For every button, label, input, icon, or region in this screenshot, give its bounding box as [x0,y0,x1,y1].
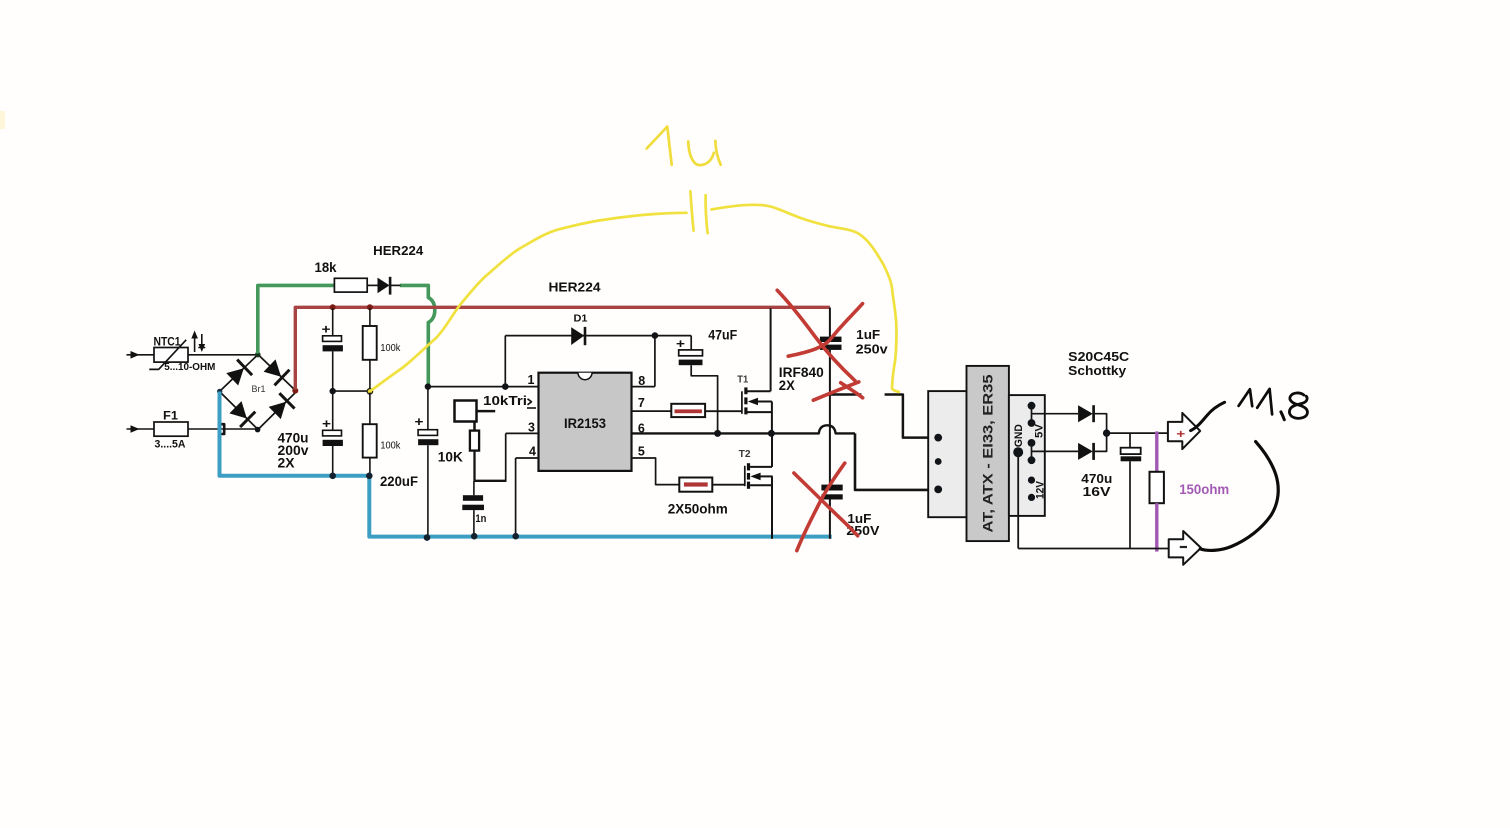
output minus terminal arrow [1169,531,1201,565]
transformer primary pin dot top [934,434,942,442]
svg-text:AT, ATX - EI33, ER35: AT, ATX - EI33, ER35 [980,374,996,532]
wire trimmer to 10K resistor [473,422,476,431]
svg-text:D1: D1 [574,314,588,325]
wire D1 junction to 47uF [655,335,691,337]
wire 470u 16V to ground rail [1129,461,1131,548]
wire 100k #1 to mid rail [369,360,371,391]
schottky diode top triangle [1078,405,1093,422]
wire diode to green [390,284,400,286]
svg-text:1: 1 [528,373,535,387]
svg-text:12V: 12V [1034,480,1046,499]
capacitor 470u 16V bottom plate [1121,456,1142,461]
resistor 100k #2 body [363,424,377,457]
svg-text:5: 5 [638,445,645,459]
svg-text:7: 7 [638,396,645,410]
svg-text:16V: 16V [1083,484,1111,499]
capacitor 470u 16V top plate [1121,448,1141,454]
transistor T2 drain wire [750,466,772,468]
transformer core [967,366,1009,541]
wire GND return vertical [1017,452,1019,548]
red X over cut stub stroke A [813,382,859,400]
svg-text:8: 8 [638,374,645,388]
pale yellow smudge left edge [0,111,5,129]
svg-text:1uF: 1uF [856,328,880,342]
junction dot mid rail right (yellow end) [367,388,374,395]
bridge Br1 diamond outline [220,355,297,430]
handwritten 11,8 value [1239,389,1253,406]
svg-text:250v: 250v [856,343,888,357]
junction dot mid node 47uF return [714,430,721,437]
wire 100k #2 to blue rail [369,458,371,476]
down arrow annotation at NTC1 [201,334,203,346]
green wire bridge to 18k [258,285,335,353]
minus sign in terminal [1180,546,1187,548]
wire mid pair to schottky D-bottom [1032,450,1079,452]
svg-text:5V: 5V [1034,423,1046,438]
wire mid rail to cap #2 [332,391,334,430]
wire cap 220uF to blue rail [427,445,429,537]
junction dot D1/pin8/47uF [652,332,659,339]
wire 1uF bottom to blue rail [829,500,831,539]
transistor T2 body arrow [750,473,760,481]
resistor 2X50ohm #2 red stripe [684,482,708,486]
capacitor 470u #1 top plate [323,336,342,342]
yellow wire right branch [712,205,899,392]
resistor 18k body [334,278,367,292]
wire D1 top horizontal [505,335,655,337]
input terminal arrow (line) top [127,354,155,356]
transistor T1 channel dashes [744,387,747,394]
junction dot blue rail 1n [471,533,478,540]
input terminal arrowhead top [131,351,140,359]
junction dot mid node T1/T2 [768,430,775,437]
svg-text:+: + [415,415,424,429]
resistor 10K body [470,431,479,451]
bridge diode bottom-right arm [269,402,286,419]
capacitor 1uF 250v top plate A [820,337,842,342]
thermistor NTC1 body [154,348,188,363]
bridge diode bottom-left arm [229,401,246,418]
red X over 1uF top stroke B [788,304,862,357]
svg-text:4: 4 [529,445,536,459]
capacitor 220uF bottom plate [418,439,438,445]
capacitor 1n top plate [463,495,483,501]
wire red rail to cap 470u #1 [332,308,334,336]
svg-text:10K: 10K [438,449,463,464]
resistor 2X50ohm #1 red stripe [675,409,702,413]
svg-text:100k: 100k [380,342,401,354]
junction dot blue rail pin4 [512,533,519,540]
wire cap #1 to mid rail [332,351,334,391]
node bridge top junction dot [255,352,261,358]
transformer secondary pin dots [1028,402,1036,410]
wire pin4 stub [516,457,539,459]
transistor T1 body arrow [748,398,758,406]
red X over 1uF bottom stroke B [794,473,858,536]
diode D1 triangle [571,327,584,345]
bridge diode top-right arm [264,359,282,376]
green wire diode to pin1 node with hop over red rail [400,285,435,385]
output plus terminal arrow [1168,413,1200,449]
capacitor 1uF 250v top plate B [820,345,842,350]
resistor 2X50ohm #1 body [671,404,705,417]
crossing bracket over blue wire [219,424,224,434]
schottky diode top cathode bar [1092,405,1095,422]
transformer secondary pair link 5V [1031,406,1033,423]
resistor 100k #1 body [363,326,377,360]
capacitor 1uF 250V bottom plate B [821,494,842,499]
capacitor 470u #2 top plate [323,430,342,436]
wire output to 470u 16V cap [1129,433,1131,448]
junction dot output node [1103,429,1110,436]
wire pin5 dogleg to gate resistor 2 [632,458,680,485]
node bridge bottom junction dot [255,427,261,433]
wire trimmer to pin2 [477,410,496,413]
wire pin6 / half-bridge mid node with hop [632,425,856,433]
svg-text:220uF: 220uF [380,474,418,489]
yellow capacitor 1u right plate [706,195,708,233]
trimmer 10kTri body [455,401,477,422]
svg-text:F1: F1 [163,409,178,423]
wire gate resistor #1 to T1 gate [705,410,742,412]
svg-text:100k: 100k [380,439,401,451]
op-amp/driver IC U1 IR2153 body [539,373,632,471]
svg-text:+: + [1176,427,1185,441]
up arrow annotation at NTC1 [194,336,196,352]
junction dot blue rail x428 [424,534,431,541]
capacitor 1uF 250V bottom plate A [821,485,842,491]
capacitor 47uF bottom plate [679,360,703,366]
svg-text:T2: T2 [739,448,751,460]
svg-text:+: + [322,417,331,431]
diode HER224 (top) triangle [378,278,390,294]
stub cut wire left [828,393,861,396]
resistor 150ohm body [1150,472,1164,503]
handwritten stroke at plus terminal [1191,402,1225,430]
wire pin8 vertical [654,336,656,387]
svg-text:2X50ohm: 2X50ohm [668,501,728,516]
wire 5V pair to schottky D-top [1032,413,1079,415]
svg-text:2X: 2X [779,378,795,393]
wire D1 branch vertical left [504,336,506,387]
wire F1 to bridge bottom node [188,428,257,430]
junction dot blue rail x369 [366,473,373,480]
svg-text:Schottky: Schottky [1068,363,1127,378]
wire pin7 to gate resistor [632,410,672,412]
wire mid rail to 100k #2 [369,391,371,424]
wire 18k to diode [367,284,377,286]
wire pin1 rail [428,386,539,388]
transistor T2 channel dashes [747,463,750,470]
purple wire top (output to 150ohm) [1155,431,1158,472]
junction dot pin1/green node [425,383,431,389]
transistor T2 source wire [750,484,772,486]
svg-text:GND: GND [1013,424,1025,447]
wire NTC1 to bridge top node [188,354,258,356]
yellow capacitor 1u left plate [690,191,693,230]
wire node to cap 220uF [427,387,429,430]
wire mid node down to transformer [855,433,928,490]
resistor 2X50ohm #2 body [679,478,712,492]
blue negative rail wire [220,392,832,537]
svg-text:150ohm: 150ohm [1179,482,1229,497]
transistor T1 gate bar [741,391,743,414]
svg-text:Br1: Br1 [252,384,266,395]
thermistor NTC1 diagonal strike [149,340,186,370]
diode D1 cathode bar [584,327,587,345]
transistor T2 gate bar [744,466,746,486]
svg-text:10kTri: 10kTri [483,393,527,408]
yellow wire left branch [370,213,687,391]
purple wire bottom (150ohm to ground) [1155,503,1158,551]
wire schottky bottom to output node [1095,433,1107,451]
wire schottky top to output node [1095,414,1107,433]
capacitor 220uF top plate [418,430,437,436]
transistor T1 drain wire [748,390,771,392]
svg-text:T1: T1 [737,373,748,385]
wire pin3 vertical [505,433,507,482]
svg-text:NTC1: NTC1 [154,335,181,349]
svg-text:HER224: HER224 [549,279,602,294]
wire junction to 1n cap [473,481,475,495]
wire cap #2 to blue rail [332,446,334,476]
IC notch [578,373,592,380]
svg-text:HER224: HER224 [373,244,423,258]
red positive rail wire [295,307,830,389]
handwritten arc wire to minus terminal [1200,442,1278,551]
junction dot red rail x333 [330,304,336,310]
wire red rail to 100k #1 [369,308,371,326]
wire gate resistor #2 to T2 gate [712,484,745,486]
svg-text:47uF: 47uF [708,328,737,343]
svg-text:1n: 1n [475,513,486,525]
transformer left bobbin [928,391,966,517]
svg-text:18k: 18k [315,260,337,275]
red X over 1uF top stroke A [777,290,855,380]
transformer secondary pair link mid [1031,443,1033,460]
pin 2 marker [528,399,532,405]
stub cut wire right to transformer [885,395,929,438]
input terminal arrow (line) bottom [127,428,155,430]
schottky diode bottom triangle [1078,443,1093,460]
svg-text:5...10-OHM: 5...10-OHM [164,362,215,373]
capacitor 1n bottom plate [462,505,484,510]
transformer primary pin dot bottom [934,486,942,494]
wire 47uF to mid node [691,365,717,433]
wire 1n to blue rail [473,510,475,537]
svg-text:IR2153: IR2153 [564,416,606,431]
svg-text:+: + [676,337,685,351]
svg-text:3....5A: 3....5A [155,438,186,450]
schottky diode bottom cathode bar [1092,443,1095,460]
svg-text:3: 3 [528,420,535,434]
transformer primary pin dot middle [935,458,942,465]
mid rail wire [333,390,370,392]
svg-text:+: + [322,323,331,337]
junction dot blue rail x333 [329,473,336,480]
capacitor 470u #2 bottom plate [323,440,343,446]
wire 10K to junction [473,451,475,481]
wire ground rail to minus terminal [1018,548,1169,550]
junction dot mid rail left [330,388,336,394]
node bridge right junction dot (red) [292,388,298,394]
input terminal arrowhead bottom [131,425,140,433]
red X over cut stub stroke B [841,383,863,398]
red X over 1uF bottom stroke A [797,463,845,551]
wire red rail to 1uF top [829,308,831,337]
handwritten 1u label yellow [647,127,672,165]
wire cap chain mid vertical [829,395,831,485]
capacitor 470u #1 bottom plate [323,345,343,351]
wire pin4 vertical to blue rail [515,458,517,537]
diode HER224 (top) cathode bar [389,277,392,295]
svg-text:2X: 2X [278,455,295,470]
wire junction to pin3 branch [475,480,506,482]
bridge diode top-left arm [226,368,244,385]
capacitor 47uF top plate [679,350,703,356]
fuse F1 body [154,422,188,436]
junction dot red rail x370 [367,304,373,310]
wire 1uF top to stub [829,350,831,395]
transformer GND pin dot [1013,447,1023,457]
junction dot pin1/D1 [502,383,509,390]
wire output node to plus terminal [1107,432,1169,434]
wire pin3 stub [506,432,539,434]
node bridge left junction dot [217,389,222,394]
transistor T1 source wire [748,411,772,413]
wire pin8 stub [632,386,655,388]
transformer right bobbin [1009,395,1045,516]
